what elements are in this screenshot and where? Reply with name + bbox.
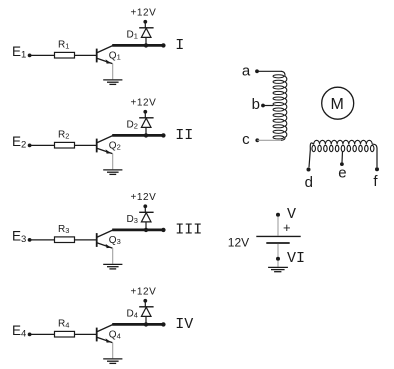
wire center tap e — [341, 151, 344, 162]
svg-text:d: d — [305, 174, 313, 191]
wire R3 to Q3 base — [75, 239, 97, 241]
label Q2 — [109, 140, 121, 151]
svg-text:Q1: Q1 — [109, 50, 121, 61]
wire V to battery + — [277, 217, 279, 236]
svg-text:E4: E4 — [12, 323, 26, 339]
wire R1 to Q1 base — [75, 54, 97, 56]
label D1 — [127, 29, 138, 40]
label R1 — [58, 39, 69, 50]
diode D4 — [139, 307, 153, 317]
transistor Q4 emitter with arrow — [97, 337, 112, 342]
label Q4 — [109, 329, 121, 340]
label R4 — [58, 318, 69, 329]
diode D3 — [139, 212, 153, 222]
node E3 (input label) — [12, 229, 26, 245]
resistor R3 — [55, 237, 75, 243]
winding a-b-c (vertical coil) — [273, 71, 287, 140]
svg-text:R3: R3 — [58, 224, 69, 235]
svg-text:M: M — [331, 96, 344, 113]
wire anode D2 — [145, 127, 147, 134]
terminal dot VI — [276, 257, 280, 261]
terminal dot E3 — [28, 238, 32, 242]
wire Q2 emitter to ground — [112, 154, 114, 170]
terminal dot E1 — [28, 54, 32, 58]
terminal dot a — [255, 69, 259, 73]
terminal dot output III — [161, 228, 165, 232]
label Q1 — [109, 50, 121, 61]
wire anode D1 — [145, 37, 147, 44]
svg-text:D3: D3 — [127, 214, 138, 225]
wire anode D4 — [145, 316, 147, 323]
wire E1 to R1 — [30, 54, 55, 56]
transistor Q4 base bar — [96, 328, 98, 342]
terminal dot V — [276, 213, 280, 217]
svg-text:+12V: +12V — [131, 98, 157, 109]
battery BT1 plates — [256, 236, 300, 243]
label D2 — [127, 119, 138, 130]
wire Q4 emitter to ground — [112, 343, 114, 359]
terminal dot E2 — [28, 144, 32, 148]
transistor Q4 collector — [97, 325, 112, 332]
terminal dot output IV — [161, 322, 165, 326]
transistor Q3 emitter with arrow — [97, 243, 112, 248]
svg-text:+12V: +12V — [131, 287, 157, 298]
resistor R1 — [55, 52, 75, 58]
svg-text:c: c — [242, 131, 250, 148]
wire collector bus (thick) stage IV — [112, 323, 163, 326]
terminal dot c — [255, 138, 259, 142]
terminal dot d — [307, 168, 311, 172]
transistor Q2 base bar — [96, 139, 98, 153]
ground (emitter Q1) — [103, 80, 122, 85]
junction dot D2 anode — [144, 133, 148, 137]
wire VI to ground — [277, 261, 279, 267]
wire D4 cathode to +12V — [144, 301, 146, 307]
resistor R4 — [55, 331, 75, 337]
wire D1 cathode to +12V — [144, 22, 146, 28]
terminal dot E4 — [28, 333, 32, 337]
svg-text:a: a — [242, 62, 251, 79]
diode D1 — [139, 28, 153, 38]
wire R2 to Q2 base — [75, 144, 97, 146]
terminal dot b — [261, 104, 265, 108]
svg-text:E1: E1 — [12, 44, 26, 60]
transistor Q2 collector — [97, 136, 112, 143]
motor M1 circle — [322, 87, 354, 119]
svg-text:e: e — [338, 164, 346, 181]
label R3 — [58, 224, 69, 235]
wire E2 to R2 — [30, 144, 55, 146]
transistor Q3 base bar — [96, 233, 98, 247]
svg-text:II: II — [175, 127, 193, 144]
svg-text:R1: R1 — [58, 39, 69, 50]
wire collector bus (thick) stage II — [112, 134, 163, 137]
svg-text:12V: 12V — [228, 235, 249, 249]
wire R4 to Q4 base — [75, 333, 97, 335]
wire coil left end to d — [309, 148, 310, 167]
svg-text:D4: D4 — [127, 308, 138, 319]
terminal dot output I — [161, 43, 165, 47]
svg-text:I: I — [175, 37, 184, 54]
wire E4 to R4 — [30, 333, 55, 335]
label R2 — [58, 129, 69, 140]
ground (battery) — [268, 267, 288, 271]
wire anode D3 — [145, 222, 147, 229]
junction dot D3 anode — [144, 228, 148, 232]
svg-text:R2: R2 — [58, 129, 69, 140]
wire D2 cathode to +12V — [144, 112, 146, 118]
terminal dot f — [375, 167, 379, 171]
svg-text:Q4: Q4 — [109, 329, 121, 340]
svg-text:III: III — [175, 221, 202, 238]
label Q3 — [109, 235, 121, 246]
node E1 (input label) — [12, 44, 26, 60]
junction dot D1 anode — [144, 43, 148, 47]
resistor R2 — [55, 142, 75, 148]
transistor Q2 emitter with arrow — [97, 148, 112, 153]
terminal dot +12V stage IV — [143, 299, 147, 303]
ground (emitter Q3) — [103, 264, 122, 269]
svg-text:f: f — [373, 173, 378, 190]
terminal dot output II — [161, 133, 165, 137]
ground (emitter Q4) — [103, 359, 122, 364]
label D3 — [127, 214, 138, 225]
svg-text:D2: D2 — [127, 119, 138, 130]
winding d-e-f (horizontal coil) — [310, 140, 377, 167]
terminal dot +12V stage I — [143, 20, 147, 24]
svg-text:Q3: Q3 — [109, 235, 121, 246]
wire battery - to VI — [277, 244, 279, 257]
svg-text:Q2: Q2 — [109, 140, 121, 151]
svg-text:b: b — [252, 96, 260, 113]
ground (emitter Q2) — [103, 170, 122, 175]
wire c to coil (gray) — [257, 139, 281, 141]
diode D2 — [139, 118, 153, 128]
svg-text:E2: E2 — [12, 134, 26, 150]
wire collector bus (thick) stage III — [112, 228, 163, 231]
label D4 — [127, 308, 138, 319]
terminal dot e — [340, 162, 344, 166]
wire Q3 emitter to ground — [112, 248, 114, 264]
terminal dot +12V stage II — [143, 110, 147, 114]
wire collector bus (thick) stage I — [112, 44, 163, 47]
wire b to coil center tap — [263, 105, 274, 107]
terminal dot +12V stage III — [143, 204, 147, 208]
svg-text:+12V: +12V — [131, 192, 157, 203]
wire D3 cathode to +12V — [144, 206, 146, 212]
svg-text:IV: IV — [175, 316, 193, 333]
wire Q1 emitter to ground — [112, 64, 114, 80]
svg-text:R4: R4 — [58, 318, 69, 329]
junction dot D4 anode — [144, 322, 148, 326]
svg-text:E3: E3 — [12, 229, 26, 245]
node E2 (input label) — [12, 134, 26, 150]
node E4 (input label) — [12, 323, 26, 339]
wire a to coil — [257, 70, 282, 72]
transistor Q1 base bar — [96, 49, 98, 63]
transistor Q1 emitter with arrow — [97, 58, 112, 63]
transistor Q1 collector — [97, 46, 112, 53]
svg-text:D1: D1 — [127, 29, 138, 40]
svg-text:+: + — [283, 220, 291, 235]
transistor Q3 collector — [97, 230, 112, 237]
wire E3 to R3 — [30, 239, 55, 241]
svg-text:+12V: +12V — [131, 8, 157, 19]
svg-text:VI: VI — [287, 250, 305, 267]
